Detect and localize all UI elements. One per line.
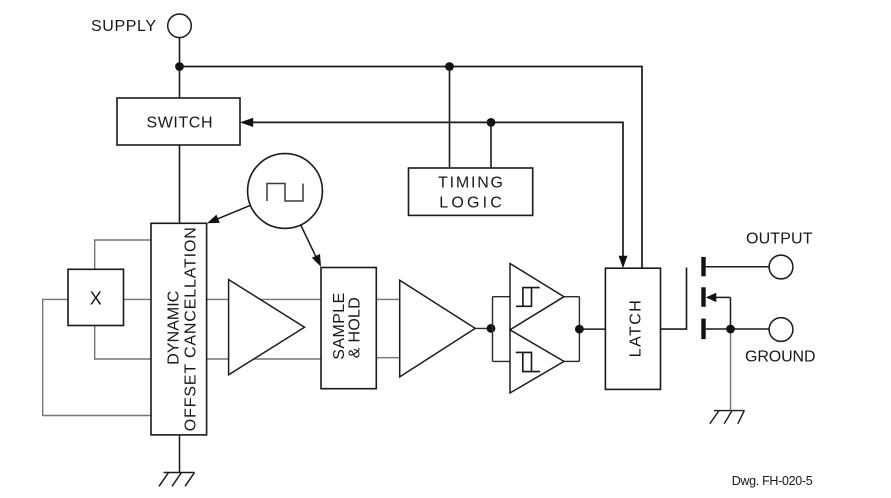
arrowhead into DOC corner (207, 215, 220, 224)
node comparator output (575, 325, 584, 334)
wire S&H to amp2 lower (376, 357, 399, 359)
ground symbol below DOC (159, 435, 195, 486)
transistor Q1 channel bar (source) (701, 319, 705, 340)
wire amp2 output to comparator input bar (475, 327, 492, 329)
DYNAMIC OFFSET CANCELLATION box (151, 223, 207, 435)
wire comparator 1 output to bar (564, 296, 579, 298)
svg-text:DYNAMIC: DYNAMIC (165, 291, 182, 365)
wire comparator 2 output to bar (564, 360, 579, 362)
wire comparator output to LATCH (579, 328, 605, 330)
SAMPLE & HOLD box (321, 268, 376, 389)
schmitt comparator 2 triangle (510, 330, 564, 393)
comparator output bar (578, 297, 580, 362)
GROUND terminal circle (769, 318, 793, 342)
wire LATCH to MOSFET gate (661, 268, 687, 330)
SWITCH box (117, 98, 240, 145)
wire SWITCH to DYNAMIC OFFSET CANCELLATION (179, 145, 181, 223)
svg-text:TIMING: TIMING (438, 175, 503, 192)
ground symbol below MOSFET (710, 411, 745, 424)
wire MOSFET source to ground symbol (730, 329, 732, 411)
svg-text:& HOLD: & HOLD (347, 297, 364, 358)
multiplier X box (68, 269, 124, 325)
oscillator circle (248, 154, 323, 229)
svg-text:OUTPUT: OUTPUT (746, 231, 813, 248)
svg-text:GROUND: GROUND (745, 349, 816, 366)
wire S&H to amp2 upper (376, 298, 399, 300)
wire drain to OUTPUT (706, 266, 770, 268)
schmitt comparator 1 triangle (510, 264, 564, 330)
wire input bar to comparator 1 (493, 296, 511, 298)
svg-text:OFFSET CANCELLATION: OFFSET CANCELLATION (183, 227, 200, 431)
wire input bar to comparator 2 (493, 360, 511, 362)
svg-text:SWITCH: SWITCH (147, 115, 213, 132)
wire source to GROUND (706, 328, 770, 330)
arrowhead into SWITCH (240, 118, 253, 127)
wire oscillator to SAMPLE &amp; HOLD (arrow) (301, 226, 317, 260)
oscillator square-wave symbol (267, 184, 303, 202)
OUTPUT terminal circle (769, 255, 793, 279)
wire DOC to amp1 lower (passes behind amp1) (207, 358, 321, 360)
node amp2 output (487, 324, 496, 333)
node timing tap on top rail (445, 62, 454, 71)
arrowhead into S&H corner (312, 254, 321, 267)
amplifier A2 triangle (400, 280, 476, 377)
wire X right to DOC (124, 298, 152, 300)
node supply junction (175, 62, 184, 71)
comparator input bar (492, 297, 494, 362)
wire top rail to TIMING LOGIC (449, 67, 451, 169)
arrowhead into LATCH top (619, 256, 628, 268)
amplifier A1 triangle (229, 280, 305, 375)
svg-text:X: X (90, 288, 102, 308)
wire top supply rail to LATCH top (180, 67, 643, 269)
body diode arrow (706, 293, 717, 302)
wire second rail to TIMING LOGIC (490, 122, 492, 168)
svg-text:LATCH: LATCH (628, 300, 645, 357)
node timing tap on second rail (487, 118, 496, 127)
wire X bottom to DOC (95, 326, 151, 360)
svg-text:Dwg. FH-020-5: Dwg. FH-020-5 (732, 474, 813, 488)
wire DOC to amp1 upper (passes behind amp1) (207, 298, 321, 300)
wire DOC upper-left to X top (95, 240, 151, 269)
transistor Q1 channel bar (drain) (701, 257, 705, 276)
transistor Q1 channel bar (body) (701, 287, 705, 307)
supply terminal circle (168, 14, 192, 38)
svg-text:SUPPLY: SUPPLY (91, 18, 156, 35)
svg-text:SAMPLE: SAMPLE (331, 293, 348, 360)
wire X left feedback loop to DOC bottom-left (43, 299, 151, 415)
LATCH box (605, 268, 660, 389)
wire oscillator to DOC (arrow) (212, 205, 251, 221)
hysteresis symbol 1 (516, 288, 540, 307)
hysteresis symbol 2 (516, 352, 540, 371)
gray signal wires group (43, 240, 731, 416)
node source junction (726, 325, 735, 334)
wire timing rail to SWITCH (arrow) and down to LATCH (arrow) (253, 122, 623, 257)
TIMING LOGIC box (409, 168, 533, 215)
wire supply terminal to SWITCH (179, 38, 181, 98)
